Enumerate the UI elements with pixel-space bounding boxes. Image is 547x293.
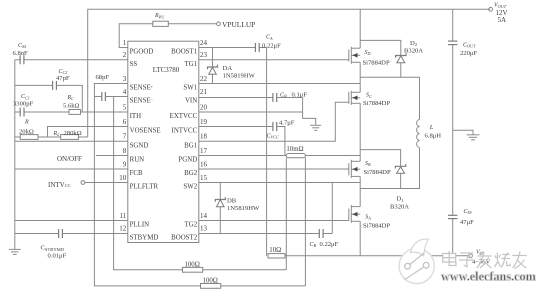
- svg-text:10Ω: 10Ω: [269, 247, 281, 254]
- svg-text:68pF: 68pF: [96, 74, 110, 81]
- wire D2 top branch: [360, 40, 401, 55]
- terminal VPULLUP: [217, 22, 221, 26]
- svg-text:VPULLUP: VPULLUP: [222, 20, 255, 29]
- svg-text:STBYMD: STBYMD: [130, 235, 159, 242]
- wire PLLIN pin11: [15, 220, 128, 222]
- node output rail COUT/CIN: [452, 9, 454, 41]
- svg-text:R: R: [24, 120, 29, 126]
- svg-text:L: L: [429, 124, 434, 131]
- svg-text:7: 7: [123, 133, 127, 141]
- svg-text:TG2: TG2: [185, 222, 198, 229]
- svg-text:SS: SS: [130, 61, 138, 68]
- svg-text:47pF: 47pF: [56, 75, 70, 82]
- svg-text:20: 20: [200, 103, 208, 111]
- svg-text:9: 9: [123, 160, 127, 168]
- op-amp U1 LTC3780 IC body: [128, 41, 199, 242]
- terminal VOUT: [489, 7, 493, 11]
- wire SW1 to inductor: [360, 77, 419, 119]
- svg-text:VOUT: VOUT: [494, 3, 507, 9]
- watermark elecfans logo: [399, 239, 434, 284]
- svg-text:22: 22: [200, 75, 208, 83]
- svg-text:6: 6: [123, 118, 127, 126]
- svg-text:220μF: 220μF: [460, 50, 477, 57]
- wire CB2 riser to SW2: [331, 183, 333, 234]
- svg-text:Si7884DP: Si7884DP: [363, 59, 390, 66]
- resistor 10ohm: [268, 254, 285, 258]
- diode DB 1N5819HW: [215, 183, 260, 234]
- svg-text:TG1: TG1: [185, 61, 198, 68]
- svg-text:17: 17: [200, 147, 208, 155]
- wire TG1 pin23: [199, 59, 349, 61]
- capacitor CIN 47uF: [448, 215, 457, 218]
- wire CC2 branch: [15, 84, 53, 86]
- svg-text:12: 12: [119, 225, 127, 233]
- diode D2 B320A: [396, 40, 424, 77]
- svg-text:6.8μH: 6.8μH: [425, 133, 442, 140]
- svg-text:B320A: B320A: [390, 203, 409, 210]
- svg-text:8: 8: [123, 147, 127, 155]
- wire TG2 pin14: [199, 220, 349, 222]
- svg-text:SENSE+: SENSE+: [130, 84, 154, 92]
- resistor RPU: [153, 21, 169, 26]
- svg-text:CSS: CSS: [18, 43, 27, 49]
- svg-text:SD: SD: [365, 50, 371, 56]
- svg-text:B320A: B320A: [404, 47, 423, 54]
- wire PGND pin17: [199, 155, 287, 157]
- wire 10ohm to VIN line: [285, 255, 470, 257]
- svg-text:BOOST2: BOOST2: [171, 235, 198, 242]
- svg-text:6.8nF: 6.8nF: [13, 50, 29, 57]
- svg-text:20kΩ: 20kΩ: [19, 129, 34, 136]
- wire SS pin2: [15, 59, 20, 61]
- wire INTVCC pin19: [199, 126, 273, 128]
- wire BOOST2 pin13: [199, 233, 319, 235]
- svg-text:19: 19: [200, 118, 208, 126]
- svg-text:5.6kΩ: 5.6kΩ: [63, 102, 80, 109]
- pin numbers left 1-12: [119, 39, 127, 233]
- svg-text:BG1: BG1: [184, 143, 198, 150]
- svg-text:0.22μF: 0.22μF: [320, 241, 339, 248]
- svg-text:100Ω: 100Ω: [203, 277, 218, 284]
- wire EXTVCC pin20: [199, 111, 303, 113]
- svg-text:15: 15: [200, 174, 208, 182]
- svg-text:18: 18: [200, 133, 208, 141]
- wire ITH pin5: [15, 111, 20, 113]
- svg-text:SW1: SW1: [183, 85, 197, 92]
- svg-text:14: 14: [200, 212, 208, 220]
- resistor R2 280k: [61, 135, 79, 140]
- svg-text:ON/OFF: ON/OFF: [57, 155, 82, 163]
- pin labels right: [170, 49, 198, 242]
- svg-text:47μF: 47μF: [460, 219, 474, 226]
- svg-text:1N5819HW: 1N5819HW: [227, 205, 260, 212]
- wire STBYMD pin12: [15, 233, 59, 235]
- capacitor 68pF: [102, 92, 106, 101]
- transistor SA Si7884DP: [349, 205, 391, 229]
- wire BOOST1 pin24: [199, 47, 255, 49]
- capacitor CA 0.22uF: [255, 43, 259, 52]
- svg-text:13: 13: [200, 225, 208, 233]
- wire SW2 pin15: [199, 182, 360, 184]
- capacitor CVCC 4.7uF: [273, 122, 277, 131]
- wire VIN pin21: [199, 97, 273, 99]
- svg-text:1N5819HW: 1N5819HW: [223, 72, 256, 79]
- wire D1 top branch: [360, 150, 400, 167]
- resistor 10mohm sense: [286, 154, 305, 158]
- svg-text:SENSE−: SENSE−: [130, 97, 154, 105]
- ground left: [9, 249, 21, 254]
- svg-text:FCB: FCB: [130, 170, 143, 177]
- terminal VIN: [469, 254, 473, 258]
- svg-text:COUT: COUT: [463, 42, 476, 48]
- svg-text:CB: CB: [310, 242, 317, 248]
- capacitor CB 0.1uF: [273, 93, 277, 102]
- svg-text:0.1μF: 0.1μF: [292, 91, 308, 98]
- wire feedback divider: [15, 136, 20, 138]
- capacitor CC1 3300pF: [20, 108, 24, 117]
- svg-text:23: 23: [200, 51, 208, 59]
- wire SW1 pin22: [199, 83, 360, 85]
- svg-text:RPU: RPU: [154, 13, 165, 19]
- wire inductor bottom: [360, 148, 419, 189]
- svg-text:SB: SB: [365, 161, 371, 167]
- wire RUN pin8 ON/OFF: [96, 155, 128, 157]
- svg-text:16: 16: [200, 160, 208, 168]
- wire COUT ground branch: [453, 130, 473, 135]
- svg-text:BG2: BG2: [184, 170, 198, 177]
- wire PGOOD pullup: [119, 24, 153, 48]
- node rail CA to 10ohm: [266, 48, 268, 256]
- svg-text:R2: R2: [53, 131, 60, 137]
- transistor SB Si7884DP: [349, 160, 391, 178]
- svg-text:3300pF: 3300pF: [13, 101, 33, 108]
- svg-text:CC1: CC1: [21, 94, 30, 100]
- svg-text:PLLFLTR: PLLFLTR: [130, 184, 159, 191]
- svg-text:INTVCC: INTVCC: [172, 128, 198, 135]
- pin labels left: [130, 49, 161, 242]
- resistor RC 5.6k: [69, 110, 81, 115]
- transistor SD Si7884DP: [349, 47, 390, 67]
- svg-text:VOSENSE: VOSENSE: [130, 128, 161, 135]
- svg-text:Si7884DP: Si7884DP: [363, 223, 390, 230]
- resistor 100ohm sense1: [183, 267, 203, 272]
- svg-text:5A: 5A: [498, 16, 507, 24]
- svg-text:0.01μF: 0.01μF: [48, 252, 67, 259]
- svg-text:PLLIN: PLLIN: [130, 222, 150, 229]
- watermark text dian zi fa shao you (hand drawn): [443, 251, 527, 269]
- wire VOSENSE pin6: [48, 127, 128, 138]
- svg-text:Si7884DP: Si7884DP: [364, 169, 391, 176]
- svg-text:4: 4: [123, 88, 127, 96]
- svg-text:11: 11: [119, 212, 126, 220]
- svg-text:EXTVCC: EXTVCC: [170, 113, 198, 120]
- inductor L 6.8uH: [417, 119, 420, 147]
- wire CB corner to ground: [303, 98, 316, 126]
- svg-text:SA: SA: [365, 214, 371, 220]
- wire sense leg right: [304, 158, 306, 286]
- capacitor CB2 0.22uF: [319, 229, 323, 238]
- wire FCB pin9: [15, 168, 128, 170]
- svg-text:SC: SC: [366, 93, 372, 99]
- svg-text:SW2: SW2: [183, 184, 197, 191]
- capacitor CSTBYMD 0.01uF: [59, 229, 63, 238]
- ground right: [467, 135, 480, 140]
- node FET column rail segments: [359, 9, 361, 48]
- wire PLLFLTR pin10: [85, 182, 128, 184]
- svg-text:LTC3780: LTC3780: [153, 66, 180, 74]
- capacitor CC2 47pF: [53, 81, 57, 90]
- svg-text:CIN: CIN: [464, 209, 472, 215]
- svg-text:RC: RC: [67, 95, 75, 101]
- svg-text:2: 2: [123, 51, 127, 59]
- node VOUT top rail: [88, 9, 491, 137]
- svg-text:PGOOD: PGOOD: [130, 49, 154, 56]
- svg-text:Si7884DP: Si7884DP: [363, 100, 390, 107]
- node GND left rail: [14, 60, 16, 250]
- svg-text:CVCC: CVCC: [267, 133, 279, 139]
- diode DA 1N5819HW: [208, 48, 256, 84]
- wire SGND pin7: [15, 140, 128, 142]
- svg-text:10mΩ: 10mΩ: [286, 146, 303, 153]
- resistor R 20k: [20, 135, 38, 140]
- svg-text:DA: DA: [223, 65, 233, 72]
- transistor SC Si7884DP: [349, 91, 391, 107]
- svg-text:INTVCC: INTVCC: [48, 181, 71, 189]
- svg-text:BOOST1: BOOST1: [171, 49, 198, 56]
- svg-text:10: 10: [119, 174, 127, 182]
- wire SENSE- pin4: [106, 96, 128, 98]
- svg-text:www.elecfans.com: www.elecfans.com: [441, 270, 536, 284]
- svg-text:CA: CA: [266, 35, 273, 41]
- svg-text:280kΩ: 280kΩ: [64, 130, 82, 137]
- svg-text:VIN: VIN: [185, 98, 197, 105]
- svg-text:4.7μF: 4.7μF: [279, 120, 295, 127]
- svg-text:DB: DB: [227, 197, 237, 204]
- svg-text:0.22μF: 0.22μF: [262, 43, 281, 50]
- ground middle: [310, 125, 321, 130]
- svg-text:1: 1: [123, 39, 127, 47]
- diode D1 B320A: [390, 164, 409, 210]
- svg-text:5: 5: [123, 103, 127, 111]
- wire sense leg left: [285, 158, 287, 270]
- svg-text:21: 21: [200, 88, 208, 96]
- svg-text:100Ω: 100Ω: [185, 262, 200, 269]
- wire BG2 pin16: [199, 168, 349, 170]
- capacitor CSS 6.8nF: [20, 55, 24, 64]
- wire BG1 pin18: [199, 102, 349, 141]
- svg-text:RUN: RUN: [130, 157, 145, 164]
- capacitor COUT 220uF: [448, 41, 457, 45]
- svg-text:CB: CB: [280, 92, 287, 98]
- svg-text:ITH: ITH: [130, 113, 142, 120]
- wire RPU to VPULLUP: [168, 23, 216, 25]
- pin numbers right 24-13: [200, 39, 208, 233]
- svg-text:SGND: SGND: [130, 143, 149, 150]
- svg-text:3: 3: [123, 75, 127, 83]
- svg-text:24: 24: [200, 39, 208, 47]
- wire SENSE+ pin3: [94, 84, 200, 286]
- svg-text:CC2: CC2: [59, 69, 68, 75]
- svg-text:PGND: PGND: [178, 157, 197, 164]
- resistor 100ohm sense2: [201, 284, 221, 289]
